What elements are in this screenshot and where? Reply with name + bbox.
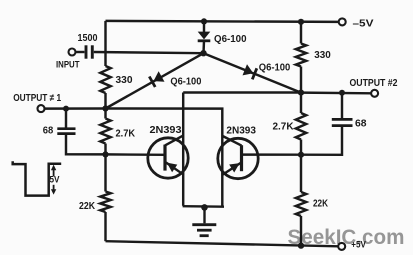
wire R330L to node1: [104, 93, 106, 109]
svg-text:2N393: 2N393: [150, 125, 182, 136]
wire right diagonal: [204, 53, 302, 92]
junction emitter-ground: [201, 204, 208, 211]
svg-text:330: 330: [116, 75, 133, 86]
svg-text:+5V: +5V: [351, 240, 366, 250]
terminal INPUT: [69, 49, 76, 56]
ground: [203, 207, 205, 224]
wire input to capacitor: [75, 51, 84, 53]
svg-text:22K: 22K: [79, 201, 95, 212]
svg-text:22K: 22K: [313, 198, 328, 209]
resistor R330 left: [100, 66, 110, 93]
node base-2 junction: [298, 152, 304, 158]
diode D2 Q6-100 (left diagonal): [154, 71, 165, 82]
junction node steering-diode: [200, 50, 206, 56]
wire top rail: [106, 21, 339, 22]
wire node2 to R2.7KR: [300, 93, 302, 113]
svg-text:2.7K: 2.7K: [116, 128, 136, 139]
wire cross-couple Q1 collector to node2: [183, 91, 301, 93]
svg-text:OUTPUT ≠ 1: OUTPUT ≠ 1: [13, 93, 61, 104]
transistor Q2 2N393: [218, 138, 258, 178]
wire output2 line: [301, 91, 371, 94]
node collector-2 junction: [298, 90, 304, 96]
junction top rail diode D1: [201, 18, 207, 24]
wire input line to diode junction: [94, 52, 204, 53]
capacitor 68 right: [332, 118, 353, 121]
svg-text:2N393: 2N393: [226, 126, 256, 137]
wire node1 to R2.7KL: [104, 109, 106, 119]
wire R22KL to bottom rail: [104, 212, 106, 241]
wire node to cap 68 left: [65, 109, 67, 129]
wire rail to R330 right: [300, 22, 302, 44]
wire base node to R22KL: [104, 154, 106, 191]
node collector-1 junction: [102, 105, 108, 111]
svg-text:330: 330: [314, 50, 331, 61]
wire left column upper segment: [104, 21, 106, 66]
waveform arrow down: [53, 185, 55, 191]
resistor R2.7K left: [100, 119, 110, 144]
resistor R22K right: [296, 192, 306, 216]
wire R22KR to bottom rail: [300, 216, 302, 246]
capacitor 68 left: [57, 127, 75, 130]
wire -5V rail to diode D1: [203, 21, 205, 32]
diode D1 Q6-100 (vertical): [198, 32, 211, 40]
wire left diagonal: [106, 53, 204, 108]
junction cap68L on output1 line: [63, 106, 69, 112]
waveform input pulse: [13, 161, 62, 195]
svg-text:–5V: –5V: [353, 18, 374, 29]
terminal +5V: [338, 243, 345, 250]
wire R330R to node2: [300, 67, 302, 93]
svg-text:Q6-100: Q6-100: [214, 34, 247, 45]
svg-text:OUTPUT #2: OUTPUT #2: [350, 78, 398, 89]
svg-text:Q6-100: Q6-100: [170, 76, 201, 87]
svg-text:5V: 5V: [50, 174, 61, 185]
wire emitter rail: [183, 205, 224, 208]
svg-text:INPUT: INPUT: [56, 60, 80, 70]
diode D3 Q6-100 (right diagonal): [243, 64, 254, 75]
transistor Q1 2N393: [148, 138, 188, 178]
wire R2.7KL to base node: [104, 144, 106, 155]
wire cap 68 right to base line: [301, 126, 342, 155]
terminal OUTPUT #2: [371, 90, 378, 97]
waveform arrow up: [53, 168, 55, 176]
svg-text:1500: 1500: [78, 33, 98, 44]
junction top rail right: [298, 19, 304, 25]
resistor R330 right: [296, 44, 306, 67]
capacitor 1500pF input: [85, 45, 88, 58]
junction bottom rail right: [298, 242, 304, 248]
wire base line Q1: [106, 153, 166, 156]
wire cross-couple node1 to Q2 collector: [106, 109, 223, 207]
svg-text:2.7K: 2.7K: [273, 121, 294, 132]
terminal OUTPUT #1: [38, 105, 45, 112]
wire cap 68 left to base line: [66, 134, 106, 155]
svg-text:68: 68: [355, 119, 367, 130]
wire bottom rail: [106, 241, 339, 246]
node base-1 junction: [102, 151, 108, 157]
wire base line Q2: [242, 153, 302, 156]
junction cap68R on output2 line: [339, 90, 345, 96]
svg-text:68: 68: [43, 125, 54, 136]
wire output1 line: [44, 107, 105, 110]
terminal -5V: [339, 18, 346, 25]
svg-text:Q6-100: Q6-100: [259, 63, 291, 74]
wire Q1 collector vertical: [182, 93, 184, 206]
wire node to cap 68 right: [341, 93, 343, 119]
resistor R2.7K right: [296, 113, 306, 140]
wire base node 2 to R22KR: [300, 155, 302, 192]
wire R2.7KR to base node 2: [300, 140, 302, 155]
resistor R22K left: [100, 192, 110, 213]
